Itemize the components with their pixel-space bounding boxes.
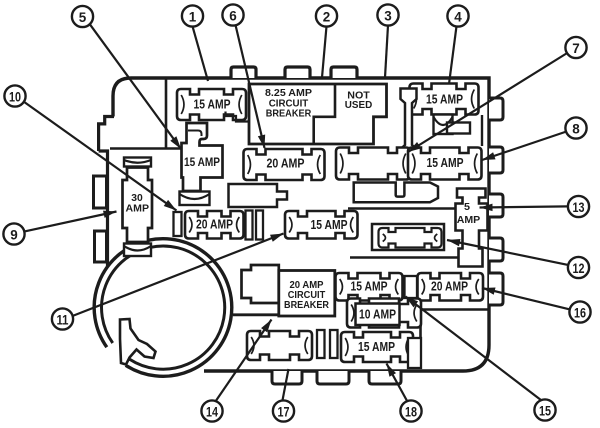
left edge tab 1	[94, 176, 107, 208]
fuse F10 (in relay box)	[379, 228, 442, 248]
svg-text:15 AMP: 15 AMP	[194, 98, 231, 112]
svg-text:15 AMP: 15 AMP	[311, 218, 348, 232]
svg-text:BREAKER: BREAKER	[266, 108, 312, 120]
right edge tab 1	[489, 98, 503, 120]
fuse F7 30 AMP (vertical)	[123, 168, 153, 243]
fuse socket clip	[180, 192, 210, 206]
leader line 9	[24, 212, 117, 232]
callout 9	[3, 223, 24, 244]
fuse F16 15 AMP	[341, 332, 413, 362]
callout 7	[565, 37, 586, 58]
svg-text:14: 14	[206, 404, 218, 420]
compartment line mid-right bottom	[350, 256, 464, 258]
leader line 6	[236, 25, 265, 148]
fuse F3 15 AMP (vertical cross)	[182, 123, 223, 191]
leader line 4	[449, 26, 457, 84]
leader line 3	[385, 25, 388, 77]
svg-text:6: 6	[229, 8, 237, 24]
svg-text:5: 5	[79, 9, 87, 25]
svg-text:4: 4	[454, 9, 462, 25]
callout 6	[222, 4, 243, 25]
fuse F9 15 AMP	[285, 211, 358, 239]
leader line 11	[72, 234, 283, 317]
top edge tab 1	[231, 67, 256, 78]
svg-text:AMP: AMP	[126, 204, 150, 215]
relay box R1	[372, 224, 444, 250]
compartment line mid-right top	[348, 207, 456, 209]
fuse F4 20 AMP	[244, 149, 325, 180]
svg-text:USED: USED	[345, 100, 373, 111]
callout 3	[377, 4, 398, 25]
leader line 7	[408, 53, 568, 153]
fuse F13 20 AMP	[418, 273, 484, 301]
left edge tab 2	[95, 231, 107, 262]
right edge tab 4	[489, 238, 503, 261]
inner compartment wall top-left horizontal	[110, 147, 185, 150]
svg-text:15 AMP: 15 AMP	[358, 340, 395, 354]
svg-text:13: 13	[573, 199, 585, 215]
ring keyway notch	[120, 319, 156, 365]
leader line 14	[216, 320, 272, 402]
leader line 16	[482, 288, 570, 310]
leader line 15	[406, 297, 542, 401]
svg-text:20 AMP: 20 AMP	[267, 157, 305, 171]
bottom edge tab 3	[369, 371, 401, 384]
connector pin	[246, 211, 253, 240]
fuse F12 15 AMP	[336, 273, 403, 301]
fuse socket clip	[124, 244, 151, 257]
fuse F2 15 AMP (top right)	[410, 84, 479, 115]
svg-text:9: 9	[10, 227, 18, 243]
callout 4	[447, 5, 468, 26]
fuse F5 (unlabeled)	[336, 148, 410, 180]
svg-text:18: 18	[405, 404, 417, 420]
svg-text:15 AMP: 15 AMP	[184, 157, 220, 169]
terminal block with notch	[354, 183, 438, 203]
circuit breaker CB2 20 AMP	[279, 271, 335, 317]
fuse F14 10 AMP	[347, 299, 421, 328]
connector pin	[317, 330, 325, 358]
svg-text:AMP: AMP	[457, 215, 481, 226]
svg-text:15 AMP: 15 AMP	[426, 93, 463, 107]
svg-text:20 AMP: 20 AMP	[431, 280, 468, 294]
callout 17	[273, 400, 294, 421]
svg-text:16: 16	[574, 305, 586, 321]
svg-text:11: 11	[57, 312, 69, 328]
svg-text:3: 3	[384, 8, 392, 24]
callout 5	[72, 6, 93, 27]
callout 8	[565, 117, 586, 138]
leader line 10	[24, 102, 177, 211]
connector pin block	[405, 276, 418, 298]
callout 1	[182, 5, 203, 26]
svg-text:15: 15	[539, 403, 551, 419]
callout 12	[568, 257, 589, 278]
svg-text:5: 5	[464, 202, 470, 213]
compartment line below circuit breaker	[233, 313, 336, 316]
svg-text:1: 1	[189, 9, 197, 25]
leader line 12	[447, 240, 569, 265]
connector J1	[401, 89, 417, 161]
connector pin block	[408, 338, 421, 368]
svg-text:10 AMP: 10 AMP	[359, 308, 396, 322]
svg-text:BREAKER: BREAKER	[284, 300, 330, 311]
callout 11	[52, 308, 73, 329]
compartment wall mid-right vertical	[463, 212, 465, 258]
connector pin	[174, 212, 182, 236]
svg-text:15 AMP: 15 AMP	[427, 156, 464, 170]
connector tab of circuit breaker	[242, 265, 279, 303]
right edge tab 3	[489, 194, 503, 217]
fuse box outer shell	[99, 117, 114, 152]
compartment wall bottom right vertical	[419, 310, 422, 370]
leader line 1	[193, 26, 209, 81]
svg-text:8: 8	[572, 121, 580, 137]
fuse F6 15 AMP	[408, 148, 482, 180]
svg-text:7: 7	[572, 40, 580, 56]
NOT USED cavity divider	[314, 84, 335, 144]
compartment line bottom right horizontal	[421, 308, 490, 311]
inner compartment wall top-left vertical	[165, 80, 168, 149]
fuse socket clip	[434, 115, 453, 135]
circuit breaker CB1 8.25 AMP box	[249, 84, 387, 144]
callout 13	[568, 196, 589, 217]
fuse F1 15 AMP (top left)	[177, 89, 246, 120]
right edge tab 2	[489, 147, 503, 173]
svg-text:17: 17	[278, 404, 290, 420]
svg-text:20 AMP: 20 AMP	[196, 218, 233, 232]
leader line 18	[387, 364, 408, 402]
svg-text:15 AMP: 15 AMP	[351, 280, 388, 294]
svg-text:2: 2	[323, 9, 331, 25]
svg-text:12: 12	[573, 260, 585, 276]
fuse socket clip	[124, 158, 151, 167]
callout 18	[400, 400, 421, 421]
terminal block with nose	[229, 184, 288, 207]
leader line 13	[480, 206, 569, 207]
callout 15	[534, 399, 555, 420]
leader line 5	[90, 24, 182, 149]
top edge tab 3	[331, 67, 357, 78]
callout 14	[201, 400, 222, 421]
round relay socket ring	[94, 239, 232, 377]
bottom edge tab 2	[317, 371, 349, 384]
connector pin	[330, 330, 338, 358]
callout 2	[316, 5, 337, 26]
compartment wall right between rows 1-2	[481, 115, 483, 146]
callout 10	[4, 85, 25, 106]
fuse F11 5 AMP (vertical)	[456, 189, 488, 267]
bottom edge tab 1	[272, 371, 302, 384]
fuse F15 (unlabeled)	[247, 331, 312, 360]
connector stub	[447, 123, 470, 134]
leader line 17	[282, 369, 288, 401]
svg-text:10: 10	[9, 89, 21, 105]
connector pin	[256, 211, 263, 240]
svg-text:30: 30	[131, 193, 143, 204]
right edge tab 5	[489, 273, 503, 305]
leader line 2	[322, 26, 327, 77]
top edge tab 2	[285, 67, 310, 78]
fuse F8 20 AMP	[185, 211, 244, 239]
leader line 8	[482, 132, 567, 161]
callout 16	[569, 301, 590, 322]
terminal step under F1	[226, 112, 250, 122]
